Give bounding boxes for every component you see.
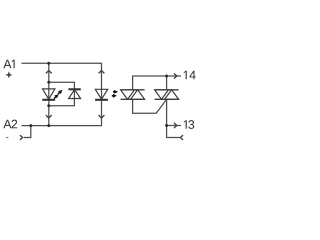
power triac Q1 bottom bar [155, 98, 179, 100]
plug contact chevron terminal 13 [174, 123, 177, 128]
junction node loop bottom [47, 104, 50, 107]
protection diode D2 cathode bar [68, 88, 80, 90]
wire 13 line [167, 125, 181, 127]
junction node 14 [165, 75, 168, 78]
plus polarity sign [6, 72, 11, 77]
opto light arrow upper [113, 90, 118, 94]
junction node A1/LED branch [47, 62, 50, 65]
wire LED branch vertical [48, 63, 50, 125]
phototriac U1 up triangle [131, 90, 145, 100]
minus polarity sign [6, 137, 9, 139]
wire A1 rail, right branch, A2 rail [22, 63, 102, 125]
wire phototriac bottom lead to triac gate [133, 99, 167, 113]
junction node A2 stub [29, 124, 32, 127]
power triac Q1 top bar [155, 89, 179, 91]
power triac Q1 down triangle [155, 90, 169, 100]
wire A2 plug stub [24, 126, 31, 138]
LED D1 emission arrow lower [54, 94, 58, 98]
wire triac bottom lead and 13 plug stub [167, 99, 181, 137]
plug contact chevron on diode branch top [99, 71, 105, 74]
wire triac top lead [166, 76, 168, 90]
plug contact chevron on LED branch bottom [46, 115, 52, 118]
junction node loop top [47, 81, 50, 84]
opto light arrow lower [112, 94, 117, 98]
plug contact chevron on diode branch bottom [99, 115, 105, 118]
terminal label 14 [184, 71, 196, 79]
LED D1 triangle [43, 89, 55, 99]
socket contact fork on 13 stub [180, 135, 183, 140]
terminal label 13 [184, 120, 194, 129]
junction node 13 [165, 124, 168, 127]
protection diode D2 triangle [69, 90, 81, 99]
junction node A2/LED branch [47, 124, 50, 127]
suppressor diode D3 triangle [95, 89, 107, 99]
phototriac U1 bottom bar [121, 98, 145, 100]
phototriac U1 top bar [121, 89, 145, 91]
LED D1 cathode bar [42, 99, 55, 101]
plug contact chevron terminal 14 [174, 73, 177, 78]
wire antiparallel diode loop [49, 82, 75, 105]
suppressor diode D3 cathode bar [95, 99, 108, 101]
terminal label A1 [3, 60, 14, 68]
terminal label A2 [3, 120, 17, 129]
LED D1 emission arrow upper [58, 90, 62, 94]
phototriac U1 down triangle [121, 90, 135, 100]
wire 14 line with phototriac top lead [133, 76, 181, 90]
socket contact fork on A2 stub [20, 135, 23, 140]
power triac Q1 up triangle [165, 90, 179, 100]
plug contact chevron on A1 branch [46, 71, 52, 74]
